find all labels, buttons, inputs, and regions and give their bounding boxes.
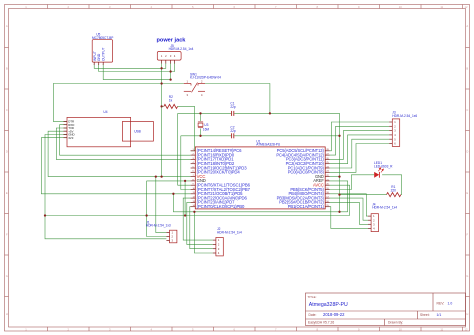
wire C2 right to GND xyxy=(234,135,339,137)
svg-text:3V3: 3V3 xyxy=(68,136,74,140)
wire C1 right to GND xyxy=(234,113,339,135)
wire R2 to RESET pin xyxy=(178,106,195,150)
svg-text:11: 11 xyxy=(440,5,443,9)
wire PC4 to J3 pin 2 xyxy=(330,126,390,155)
wire PD6 to J2 pin1 xyxy=(183,198,213,240)
svg-text:2018-09-22: 2018-09-22 xyxy=(323,312,345,317)
svg-text:A: A xyxy=(466,24,468,28)
wire AVCC return line xyxy=(45,215,350,217)
wire U4 3V3 to PD5 xyxy=(41,138,190,194)
junction xyxy=(199,135,201,137)
svg-text:B: B xyxy=(6,66,8,70)
capacitor C1 xyxy=(230,102,236,116)
resistor R1 xyxy=(387,185,401,197)
junction xyxy=(44,214,46,216)
svg-text:1k: 1k xyxy=(169,99,173,103)
svg-text:PB1(OC1A/PCINT1): PB1(OC1A/PCINT1) xyxy=(288,204,325,209)
MCU U1 ATMEGA328-PU xyxy=(191,139,330,209)
svg-text:power jack: power jack xyxy=(157,38,187,44)
svg-text:HDR-M-2.54_1x4: HDR-M-2.54_1x4 xyxy=(372,206,397,210)
wire U4 GND down to J1 pin3 xyxy=(45,135,166,239)
wire PD7 to J2 pin2 xyxy=(187,202,213,244)
wire AVCC down xyxy=(330,185,350,215)
wire PB6 to XTAL1 xyxy=(178,113,191,185)
junction xyxy=(184,214,186,216)
wire PB0 to J2 pin3 xyxy=(190,207,213,249)
svg-text:220: 220 xyxy=(391,188,397,192)
svg-text:G: G xyxy=(6,274,8,278)
svg-text:HDR-M-2.54_1x3: HDR-M-2.54_1x3 xyxy=(146,224,171,228)
junction xyxy=(160,82,162,84)
power jack header J5 xyxy=(157,38,194,64)
svg-text:Drawn By:: Drawn By: xyxy=(388,320,403,324)
svg-text:H: H xyxy=(6,312,8,316)
svg-text:TITLE:: TITLE: xyxy=(308,295,317,299)
svg-text:1.0: 1.0 xyxy=(448,301,453,305)
svg-text:Atmega328P-PU: Atmega328P-PU xyxy=(309,302,348,308)
wire SW1 to C1 rail xyxy=(205,84,270,114)
junction xyxy=(145,214,147,216)
svg-text:D: D xyxy=(6,149,8,153)
svg-text:12: 12 xyxy=(465,5,468,9)
svg-text:E: E xyxy=(466,191,468,195)
junction xyxy=(193,211,195,213)
svg-text:HDR-M-2.54_1x4: HDR-M-2.54_1x4 xyxy=(217,230,242,234)
svg-text:22p: 22p xyxy=(230,129,236,133)
header J2 xyxy=(213,227,242,256)
switch SW1 xyxy=(184,72,221,97)
svg-text:ATMEGA328-PU: ATMEGA328-PU xyxy=(256,143,281,147)
svg-text:USB: USB xyxy=(134,129,141,133)
wire PB2 to J4 pin 3 xyxy=(330,202,369,224)
header J4 xyxy=(368,202,397,231)
svg-text:D: D xyxy=(466,149,468,153)
wire crystal bottom leg xyxy=(200,129,202,136)
wire J5 pin3 xyxy=(170,63,172,80)
svg-text:EasyEDA V5.7.26: EasyEDA V5.7.26 xyxy=(308,320,334,324)
wire GND vertical xyxy=(339,136,341,212)
junction xyxy=(269,112,271,114)
svg-text:C: C xyxy=(6,108,8,112)
svg-text:GND: GND xyxy=(97,53,101,61)
wire PB3 to J4 pin 2 xyxy=(330,198,369,220)
junction xyxy=(199,112,201,114)
wire +5V rail to J1 pin1 xyxy=(156,177,167,233)
svg-text:11: 11 xyxy=(440,327,443,331)
wire J5 pin4 xyxy=(171,63,175,72)
wire R1 to GND xyxy=(340,194,387,196)
wire U4 RXD to PD0 xyxy=(60,125,191,156)
svg-text:OUTPUT: OUTPUT xyxy=(102,47,106,61)
svg-text:INPUT: INPUT xyxy=(93,51,97,61)
wire U4 DTR to SW1 xyxy=(53,84,184,122)
svg-text:10: 10 xyxy=(399,327,402,331)
header J1 xyxy=(146,220,177,243)
header J3 xyxy=(389,111,417,147)
wire PC5 to J3 pin 1 xyxy=(330,122,390,151)
wire PC0 to J3 pin 6 xyxy=(330,144,390,173)
wire PC1 to J3 pin 5 xyxy=(330,139,390,168)
wire J5 pin2 xyxy=(162,63,166,68)
svg-text:A: A xyxy=(6,24,8,28)
wire XTAL1 rail left xyxy=(178,112,232,114)
resistor R2 xyxy=(164,95,178,108)
svg-text:H: H xyxy=(466,312,468,316)
wire GND rail to J1 pin2 xyxy=(147,181,167,237)
svg-text:10: 10 xyxy=(399,5,402,9)
svg-text:LED-0603_R: LED-0603_R xyxy=(374,164,393,168)
svg-text:REV:: REV: xyxy=(437,301,445,305)
wire U4 +5V to VCC xyxy=(48,131,191,176)
wire R2 left lead xyxy=(162,105,164,107)
svg-text:E: E xyxy=(6,191,8,195)
junction xyxy=(160,105,162,107)
junction xyxy=(172,193,174,195)
wire crystal top leg xyxy=(200,113,202,121)
wire +5V vertical rail xyxy=(161,64,163,177)
junction xyxy=(169,78,171,80)
svg-text:(PCINT0/CLKO/ICP1)PB0: (PCINT0/CLKO/ICP1)PB0 xyxy=(197,204,245,209)
svg-text:12: 12 xyxy=(465,327,468,331)
wire AREF down xyxy=(330,181,348,212)
junction xyxy=(338,175,340,177)
crystal U3 xyxy=(198,122,209,131)
voltage regulator U5 xyxy=(92,33,113,65)
wire PB7 to XTAL2 xyxy=(181,136,191,190)
wire U1 GND right xyxy=(330,176,340,178)
wire PC2 to J3 pin 4 xyxy=(330,135,390,164)
wire XTAL2 rail left xyxy=(181,135,231,137)
svg-text:KJ-1102DP-E4DW-04: KJ-1102DP-E4DW-04 xyxy=(190,76,221,80)
junction xyxy=(155,175,157,177)
svg-text:1/1: 1/1 xyxy=(437,313,442,317)
junction xyxy=(160,175,162,177)
svg-text:Sheet:: Sheet: xyxy=(420,313,430,317)
wire PB4 to J4 pin 1 xyxy=(330,194,369,216)
wire PB5 to LED xyxy=(330,175,375,190)
svg-text:U4: U4 xyxy=(103,110,107,114)
svg-text:16M: 16M xyxy=(203,127,210,131)
wire LED to R1 xyxy=(382,175,402,195)
wire U5 pin2 to J5 xyxy=(99,64,171,72)
svg-text:HDR-M-2.54_1x6: HDR-M-2.54_1x6 xyxy=(392,114,417,118)
junction xyxy=(338,135,340,137)
wire GND drop xyxy=(184,181,186,216)
wire U4 TXD to PD1 xyxy=(56,128,190,159)
svg-text:Date:: Date: xyxy=(309,313,317,317)
svg-text:22p: 22p xyxy=(230,105,236,109)
wire PB1 to J4 pin 4 xyxy=(330,207,369,229)
svg-text:MC7805CT-BP: MC7805CT-BP xyxy=(92,36,113,40)
svg-text:HDR-M-2.54_1x4: HDR-M-2.54_1x4 xyxy=(169,47,194,51)
svg-text:G: G xyxy=(466,274,468,278)
junction xyxy=(184,180,186,182)
wire U5 pin1 to J5 xyxy=(94,64,161,68)
wire J2 pin4 riser xyxy=(194,212,212,253)
junction xyxy=(338,193,340,195)
USB-serial module U4 xyxy=(64,110,154,147)
junction xyxy=(169,70,171,72)
wire AREF return line xyxy=(173,194,347,212)
wire GND row left xyxy=(147,180,191,182)
LED LED1 xyxy=(374,161,393,178)
wire U5 pin3 to J5 xyxy=(103,64,170,80)
wire PC3 to J3 pin 3 xyxy=(330,131,390,160)
svg-text:B: B xyxy=(466,66,468,70)
junction xyxy=(160,67,162,69)
junction xyxy=(338,211,340,213)
svg-text:C: C xyxy=(466,108,468,112)
capacitor C2 xyxy=(230,126,236,139)
